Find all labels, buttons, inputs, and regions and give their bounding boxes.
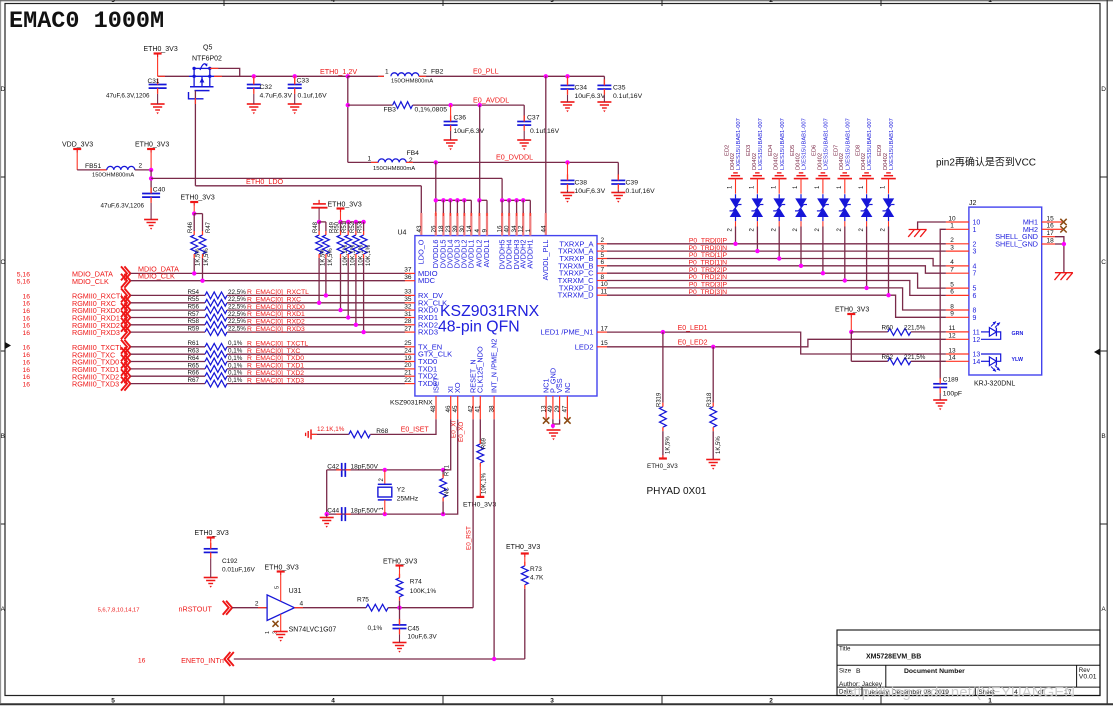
svg-text:LXES15UBAB1-007: LXES15UBAB1-007 xyxy=(889,118,895,170)
wire P0_TRD[1]P row jog to pin4 xyxy=(607,259,946,266)
svg-text:47uF,6.3V,1206: 47uF,6.3V,1206 xyxy=(101,203,145,210)
power symbol ETH0_3V3 (R60/R62) xyxy=(847,313,855,315)
svg-text:16: 16 xyxy=(22,352,30,359)
svg-text:3: 3 xyxy=(601,244,605,251)
LED GRN inside J2 xyxy=(981,331,989,333)
power symbol ETH0_3V3 (R319) bar below xyxy=(659,457,667,459)
svg-text:35: 35 xyxy=(404,296,412,303)
svg-text:37: 37 xyxy=(404,267,412,274)
power symbol ETH0_3V3 T-bar (R50-R53) xyxy=(337,207,345,209)
svg-text:XM5728EVM_BB: XM5728EVM_BB xyxy=(866,654,921,661)
svg-text:Size: Size xyxy=(839,668,852,675)
svg-text:LED2: LED2 xyxy=(575,342,594,351)
svg-text:EMAC0 1000M: EMAC0 1000M xyxy=(9,8,164,35)
ground (C38) xyxy=(561,192,575,194)
resistor R75 0ohm xyxy=(366,604,388,611)
node R60 junction xyxy=(849,330,853,334)
svg-text:21: 21 xyxy=(404,370,412,377)
resistor R66 0ohm series + wire xyxy=(130,375,205,377)
svg-text:R75: R75 xyxy=(357,597,369,604)
svg-text:2: 2 xyxy=(139,163,143,170)
svg-text:22,5%: 22,5% xyxy=(228,296,246,303)
svg-text:C44: C44 xyxy=(327,508,339,515)
svg-text:R47: R47 xyxy=(206,221,212,233)
wire E0_DVDDL xyxy=(406,161,618,163)
pin 8 J2 xyxy=(946,309,969,311)
svg-text:C40: C40 xyxy=(153,187,166,194)
capacitor C44 18pF xyxy=(341,507,343,521)
wire E0_AVDDL vertical to chip AVDDL pins xyxy=(479,105,481,200)
svg-text:7: 7 xyxy=(973,271,977,278)
svg-text:15: 15 xyxy=(601,340,609,347)
svg-text:P0_TRD[1]N: P0_TRD[1]N xyxy=(688,260,727,267)
pin 39 DVDDL3 xyxy=(456,213,458,236)
svg-text:4.7uF,6.3V: 4.7uF,6.3V xyxy=(260,93,293,100)
resistor R318 1K (LED2) xyxy=(712,347,714,403)
wire P0_TRD[3]N row jog to pin9 xyxy=(607,295,946,317)
wire AVDDL bus xyxy=(479,199,487,201)
svg-text:17: 17 xyxy=(1047,230,1055,237)
wire U31 output xyxy=(294,607,366,609)
wire DVDDH bus xyxy=(501,178,503,200)
junction node ETH0_1.2V branch xyxy=(346,74,350,78)
svg-text:4: 4 xyxy=(474,229,481,233)
svg-text:12: 12 xyxy=(973,337,981,344)
wire E0_RST from pin42 xyxy=(472,419,474,608)
svg-text:Title: Title xyxy=(839,646,851,653)
svg-text:6: 6 xyxy=(601,259,605,266)
resistor R61 0ohm series + wire xyxy=(130,346,205,348)
pin 16 DVDDH5 xyxy=(501,213,503,236)
svg-text:16: 16 xyxy=(22,323,30,330)
pin 36 MDC xyxy=(405,280,415,282)
svg-text:MDC: MDC xyxy=(418,276,436,285)
svg-text:44: 44 xyxy=(540,225,547,233)
svg-text:1K,5%: 1K,5% xyxy=(716,436,722,454)
svg-text:ISET: ISET xyxy=(431,376,440,393)
svg-text:32: 32 xyxy=(404,303,412,310)
svg-text:AVDDL1: AVDDL1 xyxy=(482,240,491,268)
ground (C36) xyxy=(444,139,458,141)
pin 20 TXD1 xyxy=(405,368,415,370)
svg-text:0.1uf,16V: 0.1uf,16V xyxy=(530,128,560,135)
svg-text:16: 16 xyxy=(1047,223,1055,230)
svg-text:2: 2 xyxy=(973,241,977,248)
power symbol ETH0_3V3 (R69) bar below xyxy=(476,496,484,498)
svg-text:100K,1%: 100K,1% xyxy=(410,588,437,595)
svg-text:1: 1 xyxy=(368,156,372,163)
svg-text:B: B xyxy=(1101,433,1105,440)
ferrite bead FB2 xyxy=(348,75,384,77)
svg-text:MDIO_CLK: MDIO_CLK xyxy=(72,277,109,286)
wire J2 pin1 to C189 xyxy=(940,229,946,379)
wire P0_TRD[0]P row xyxy=(607,243,946,245)
svg-text:LXES15UBAB1-007: LXES15UBAB1-007 xyxy=(758,118,764,170)
svg-text:R71: R71 xyxy=(445,464,451,476)
svg-text:16: 16 xyxy=(22,330,30,337)
chassis ground (J2 pin10) xyxy=(909,229,927,231)
svg-text:LED1 /PME_N1: LED1 /PME_N1 xyxy=(541,328,594,337)
svg-text:18pF,50V: 18pF,50V xyxy=(351,463,379,470)
svg-text:INT_N /PME_N2: INT_N /PME_N2 xyxy=(490,339,499,393)
svg-text:D0402: D0402 xyxy=(861,153,867,170)
svg-text:R55: R55 xyxy=(188,296,200,303)
svg-text:30: 30 xyxy=(459,225,466,233)
svg-text:FB2: FB2 xyxy=(431,69,444,76)
svg-text:P0_TRD[3]P: P0_TRD[3]P xyxy=(689,282,728,289)
svg-text:12.1K,1%: 12.1K,1% xyxy=(317,426,345,433)
resistor R53 10K pullup xyxy=(361,220,365,224)
svg-text:23: 23 xyxy=(445,225,452,233)
svg-text:D0402: D0402 xyxy=(752,153,758,170)
svg-text:R53: R53 xyxy=(358,221,364,233)
svg-text:E0_ISET: E0_ISET xyxy=(401,427,430,434)
capacitor C40 47uF xyxy=(142,193,160,195)
pin 13 NC1 xyxy=(545,396,547,419)
svg-text:R59: R59 xyxy=(188,326,200,333)
svg-text:D0402: D0402 xyxy=(730,153,736,170)
svg-text:http://blog.csdn.net/(YEYUANGE: http://blog.csdn.net/(YEYUANGEN xyxy=(845,684,1075,701)
svg-text:Q5: Q5 xyxy=(203,45,212,52)
pin 21 TXD2 xyxy=(405,375,415,377)
wire J2 pin10 to chassis ground xyxy=(918,222,946,230)
svg-text:R_EMAC[0]_TXD2: R_EMAC[0]_TXD2 xyxy=(247,370,304,377)
svg-text:3: 3 xyxy=(550,0,554,4)
svg-text:LXES15UBAB1-007: LXES15UBAB1-007 xyxy=(824,118,830,170)
wire E0_RST node xyxy=(388,607,473,609)
svg-text:1: 1 xyxy=(950,223,954,230)
capacitor C33 0.1uF xyxy=(293,74,297,78)
svg-text:R_EMAC[0]_RXCTL: R_EMAC[0]_RXCTL xyxy=(247,289,309,296)
svg-text:P0_TRD[2]P: P0_TRD[2]P xyxy=(689,267,728,274)
svg-text:5,16: 5,16 xyxy=(17,279,30,286)
svg-text:CLK125_NDO: CLK125_NDO xyxy=(476,346,485,393)
svg-text:ETH0_3V3: ETH0_3V3 xyxy=(506,544,540,551)
power symbol ETH0_3V3 (R48/R49 pullups) xyxy=(311,207,327,209)
svg-text:41: 41 xyxy=(475,405,482,413)
junction E0_AVDDL tap xyxy=(346,103,350,107)
TVS diode ED8 LXES15UBAB1-007 xyxy=(864,172,869,174)
svg-text:20: 20 xyxy=(404,362,412,369)
svg-text:VDD_3V3: VDD_3V3 xyxy=(62,142,93,149)
ground (C39) xyxy=(611,192,625,194)
wire DVDDL bus xyxy=(436,199,472,201)
wire P0_TRD[0]N row xyxy=(607,250,946,252)
U31 ground pins xyxy=(280,614,282,631)
svg-text:48: 48 xyxy=(430,405,437,413)
svg-text:3: 3 xyxy=(550,698,554,705)
svg-text:R_EMAC[0]_RXC: R_EMAC[0]_RXC xyxy=(247,297,301,304)
pin 33 RX_DV xyxy=(405,294,415,296)
svg-text:nRSTOUT: nRSTOUT xyxy=(179,605,213,614)
wire ETH0_LDO vertical to LDO_O pin 43 xyxy=(420,186,422,213)
pin 7 TXRXP_C xyxy=(597,272,607,274)
svg-text:9: 9 xyxy=(482,229,489,233)
TVS diode ED3 LXES15UBAB1-007 xyxy=(755,172,760,174)
svg-text:0.1uf,16V: 0.1uf,16V xyxy=(298,93,328,100)
svg-text:R_EMAC[0]_TXC: R_EMAC[0]_TXC xyxy=(247,348,300,355)
pin 28 RXD2 xyxy=(405,324,415,326)
svg-text:8: 8 xyxy=(601,274,605,281)
svg-text:5,16: 5,16 xyxy=(17,271,30,278)
svg-text:P0_TRD[1]P: P0_TRD[1]P xyxy=(689,252,728,259)
svg-text:LXES15UBAB1-007: LXES15UBAB1-007 xyxy=(736,118,742,170)
wire ETH0_3V3 rail to Q5 xyxy=(158,75,189,77)
pin 49 P_GND xyxy=(552,396,554,419)
LED YLW inside J2 xyxy=(981,354,1001,361)
svg-text:25: 25 xyxy=(404,340,412,347)
svg-text:P0_TRD[3]N: P0_TRD[3]N xyxy=(688,289,727,296)
svg-text:C34: C34 xyxy=(575,85,588,92)
svg-text:14: 14 xyxy=(466,225,473,233)
node pullup bus R46/R47 xyxy=(192,211,196,215)
svg-text:2: 2 xyxy=(601,237,605,244)
svg-text:38: 38 xyxy=(488,405,495,413)
svg-text:0,1%: 0,1% xyxy=(228,362,243,369)
svg-text:5: 5 xyxy=(111,0,115,4)
svg-text:1K,5%: 1K,5% xyxy=(666,436,672,454)
svg-text:11: 11 xyxy=(973,329,980,336)
wire P0_TRD[1]N row jog to pin7 xyxy=(607,266,946,273)
wire E0_ISET to pin48 xyxy=(370,419,436,434)
wire nRSTOUT to U31 input xyxy=(232,607,267,609)
power symbol ETH0_3V3 (U31) xyxy=(277,570,285,572)
svg-text:U31: U31 xyxy=(289,588,302,595)
svg-text:C32: C32 xyxy=(260,84,273,91)
svg-text:ETH0_3V3: ETH0_3V3 xyxy=(195,530,229,537)
svg-text:9: 9 xyxy=(950,311,954,318)
ground (C192) xyxy=(204,577,218,579)
node AVDDL feed junction xyxy=(478,103,482,107)
svg-text:R52: R52 xyxy=(350,221,356,233)
svg-text:4: 4 xyxy=(331,698,335,705)
ground (crystal) xyxy=(320,517,334,519)
svg-text:10uF,6.3V: 10uF,6.3V xyxy=(575,188,606,195)
pin 2 J2 xyxy=(946,243,969,245)
ground (R68) rotated xyxy=(310,429,312,439)
svg-text:10K,1%: 10K,1% xyxy=(482,472,488,494)
pin 22 TXD3 xyxy=(405,383,415,385)
svg-text:0,1%: 0,1% xyxy=(368,625,383,632)
node E0_DVDDL feed junction xyxy=(434,160,438,164)
svg-text:16: 16 xyxy=(22,293,30,300)
resistor R47 1K xyxy=(202,214,204,231)
svg-text:FB3: FB3 xyxy=(384,107,397,114)
wire ETH0_LDO from Q5 gate xyxy=(194,91,196,186)
ground (C31) xyxy=(151,103,165,105)
svg-text:J2: J2 xyxy=(969,200,977,207)
svg-text:8: 8 xyxy=(950,303,954,310)
pin 2 TXRXP_A xyxy=(597,243,607,245)
pin 8 TXRXM_C xyxy=(597,280,607,282)
svg-text:16: 16 xyxy=(22,301,30,308)
svg-text:RGMII0_TXD3: RGMII0_TXD3 xyxy=(72,380,119,389)
node R50-R53 bus xyxy=(338,220,342,224)
capacitor C42 18pF xyxy=(341,463,343,477)
svg-text:24: 24 xyxy=(404,348,412,355)
ground (C37) xyxy=(517,139,531,141)
pin 34 DVDDH3 xyxy=(515,213,517,236)
svg-text:10K,1%: 10K,1% xyxy=(366,244,372,266)
svg-text:4: 4 xyxy=(973,263,977,270)
svg-text:1K,5%: 1K,5% xyxy=(328,248,334,266)
pin 5 TXRXP_B xyxy=(597,258,607,260)
wire P0_TRD[2]N row jog to pin6 xyxy=(607,281,946,296)
ferrite bead FB51 xyxy=(77,169,107,171)
capacitor C31 47uF xyxy=(149,84,167,86)
svg-text:16: 16 xyxy=(22,382,30,389)
resistor R51 10K pullup xyxy=(346,220,350,224)
node E0_PLL junction to pin44 xyxy=(544,74,548,78)
pin 17 SHELL_GND xyxy=(1042,236,1055,238)
svg-text:0,1%: 0,1% xyxy=(228,377,243,384)
wire SHELL_GND to chassis ground xyxy=(1055,237,1064,273)
svg-text:5: 5 xyxy=(275,586,281,589)
svg-text:ETH0_3V3: ETH0_3V3 xyxy=(144,46,178,53)
pin 18 SHELL_GND xyxy=(1042,243,1055,245)
pin 15 LED2 xyxy=(597,346,607,348)
svg-text:16: 16 xyxy=(22,374,30,381)
pin 1 J2 xyxy=(946,228,969,230)
pin 6 TXRXM_B xyxy=(597,265,607,267)
svg-text:R_EMAC[0]_TXD1: R_EMAC[0]_TXD1 xyxy=(247,363,304,370)
power symbol ETH0_3V3 (C31/Q5) xyxy=(154,52,162,54)
pin 3 TXRXM_A xyxy=(597,250,607,252)
svg-text:ETH0_3V3: ETH0_3V3 xyxy=(463,501,496,508)
svg-text:AVDDL_PLL: AVDDL_PLL xyxy=(541,240,550,281)
node FB51 output junction xyxy=(135,169,151,171)
pin 4 AVDDL2 xyxy=(478,213,480,236)
svg-text:42: 42 xyxy=(467,405,474,413)
op-amp U4 KSZ9031RNX chip body xyxy=(415,236,597,396)
zone ticks top xyxy=(223,0,225,6)
pin 48 ISET xyxy=(435,396,437,419)
svg-text:4: 4 xyxy=(950,259,954,266)
svg-text:1K,5%: 1K,5% xyxy=(204,248,210,266)
svg-text:LXES15UBAB1-007: LXES15UBAB1-007 xyxy=(802,118,808,170)
svg-text:R64: R64 xyxy=(188,355,200,362)
capacitor C34 10uF xyxy=(565,74,569,78)
svg-text:2: 2 xyxy=(769,0,773,4)
pin 31 RXD1 xyxy=(405,317,415,319)
svg-text:4.7K: 4.7K xyxy=(530,574,544,581)
resistor R65 0ohm series + wire xyxy=(130,368,205,370)
wire ETH0_1.2V rail xyxy=(214,75,348,77)
pin 10 J2 xyxy=(946,221,969,223)
wire E0_LED1 from pin17 to J2 pin13 xyxy=(607,332,946,354)
svg-text:16: 16 xyxy=(22,345,30,352)
connector J2 KRJ-330DNL body xyxy=(969,207,1042,375)
svg-text:R319: R319 xyxy=(657,392,663,407)
svg-text:27: 27 xyxy=(404,325,412,332)
no-connect X MH2 xyxy=(1055,228,1062,230)
TVS diode ED4 LXES15UBAB1-007 xyxy=(777,172,782,174)
wire 1.2V vertical to FB3/FB4 xyxy=(347,76,349,162)
resistor R74 100K pullup xyxy=(396,564,404,566)
wire INT_N from pin38 xyxy=(493,419,495,659)
svg-text:PHYAD 0X01: PHYAD 0X01 xyxy=(647,486,707,497)
ferrite bead FB3 (resistor symbol) xyxy=(348,104,393,106)
svg-text:D: D xyxy=(0,86,5,93)
pin 3 J2 xyxy=(946,250,969,252)
pin 38 INT_N /PME_N2 xyxy=(493,396,495,419)
svg-text:R51: R51 xyxy=(342,221,348,233)
svg-text:4: 4 xyxy=(331,0,335,4)
ground (P_GND) xyxy=(547,429,561,431)
svg-text:R_EMAC[0]_TXD3: R_EMAC[0]_TXD3 xyxy=(247,377,304,384)
svg-text:1: 1 xyxy=(265,631,271,634)
pin 25 TX_EN xyxy=(405,346,415,348)
svg-text:E0_DVDDL: E0_DVDDL xyxy=(496,153,533,162)
resistor R55 22ohm series + wire xyxy=(130,302,205,304)
svg-text:19: 19 xyxy=(404,355,412,362)
ground (R318) xyxy=(706,459,720,461)
pin 9 AVDDL1 xyxy=(486,213,488,236)
svg-text:LDO_O: LDO_O xyxy=(417,239,426,264)
svg-text:LXES15UBAB1-007: LXES15UBAB1-007 xyxy=(867,118,873,170)
svg-text:C38: C38 xyxy=(575,180,588,187)
pin 27 RXD3 xyxy=(405,331,415,333)
svg-text:D0402: D0402 xyxy=(796,153,802,170)
svg-text:ETH0_3V3: ETH0_3V3 xyxy=(835,307,869,314)
svg-text:B: B xyxy=(1,433,5,440)
svg-text:18pF,50V: 18pF,50V xyxy=(351,508,379,515)
svg-text:ETH0_1.2V: ETH0_1.2V xyxy=(320,67,357,76)
svg-text:R65: R65 xyxy=(188,362,200,369)
resistor R56 22ohm series + wire xyxy=(130,309,205,311)
svg-text:A: A xyxy=(1101,606,1106,613)
svg-text:16: 16 xyxy=(22,308,30,315)
svg-text:16: 16 xyxy=(22,367,30,374)
svg-text:XO: XO xyxy=(453,382,462,393)
resistor R49 1K xyxy=(325,222,327,231)
svg-text:1: 1 xyxy=(385,69,389,76)
svg-text:1: 1 xyxy=(973,227,977,234)
svg-text:47: 47 xyxy=(562,405,569,413)
pin 23 DVDDL4 xyxy=(449,213,451,236)
svg-text:22,5%: 22,5% xyxy=(228,318,246,325)
svg-text:ENET0_INTn: ENET0_INTn xyxy=(181,656,224,665)
svg-text:10: 10 xyxy=(601,281,609,288)
title block xyxy=(837,630,1100,696)
wire crystal left leg xyxy=(326,470,328,514)
svg-text:43: 43 xyxy=(416,225,423,233)
wire E0_PLL vertical to AVDDL_PLL pin 44 xyxy=(545,76,547,213)
svg-text:6: 6 xyxy=(973,293,977,300)
wire MDIO_DATA xyxy=(130,272,405,274)
svg-text:V0.01: V0.01 xyxy=(1079,674,1097,681)
svg-text:TXRXM_D: TXRXM_D xyxy=(558,291,594,300)
pin 9 J2 xyxy=(946,316,969,318)
svg-text:14: 14 xyxy=(948,355,956,362)
svg-text:R_EMAC[0]_TXD0: R_EMAC[0]_TXD0 xyxy=(247,355,304,362)
ground (C33) xyxy=(288,103,302,105)
pin 12 J2 xyxy=(946,338,969,340)
svg-text:E0_LED1: E0_LED1 xyxy=(678,325,708,332)
svg-text:R48: R48 xyxy=(313,221,319,233)
svg-text:ETH0_3V3: ETH0_3V3 xyxy=(181,195,215,202)
svg-text:D0402: D0402 xyxy=(839,153,845,170)
wire Q5 drain top bypass xyxy=(210,68,240,76)
ground (C35) xyxy=(597,101,611,103)
svg-text:150OHM800mA: 150OHM800mA xyxy=(92,173,134,179)
svg-text:5: 5 xyxy=(601,252,605,259)
svg-text:LXES15UBAB1-007: LXES15UBAB1-007 xyxy=(845,118,851,170)
svg-text:0.1uf,16V: 0.1uf,16V xyxy=(613,93,643,100)
pin 17 LED1/PME_N1 xyxy=(597,331,607,333)
svg-text:RXD3: RXD3 xyxy=(418,328,438,337)
capacitor C38 10uF xyxy=(565,160,569,164)
